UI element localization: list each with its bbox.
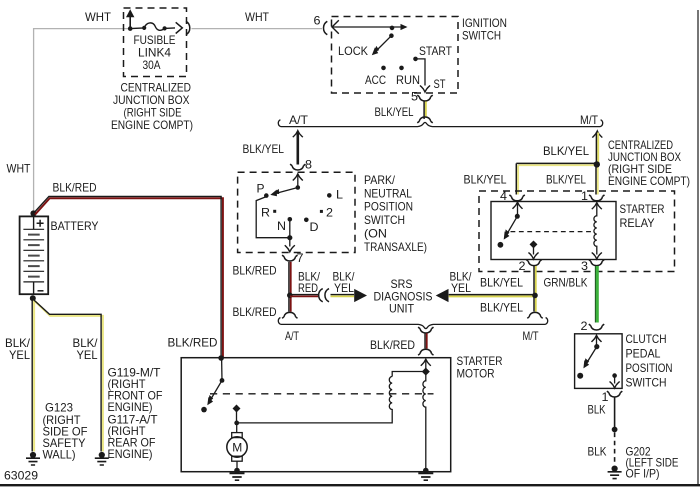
svg-text:WHT: WHT	[7, 162, 32, 176]
svg-text:GRN/BLK: GRN/BLK	[544, 275, 588, 289]
svg-text:SWITCH: SWITCH	[626, 375, 667, 389]
wire BLK/YEL junction branch to pin 4	[516, 163, 597, 194]
wire ST contact to pin 5	[416, 59, 426, 86]
wire BLK dashed to G202	[614, 433, 616, 463]
svg-text:POSITION: POSITION	[626, 361, 673, 375]
node solenoid ground at box edge	[423, 468, 429, 474]
svg-text:P: P	[257, 182, 265, 196]
connector at relay pin 2	[526, 260, 541, 266]
wire diamond contact to pin 2	[529, 247, 539, 259]
mechanical linkage dashed line	[210, 393, 434, 395]
connector BLK/YEL at lower bus M/T	[527, 312, 542, 318]
svg-text:WHT: WHT	[85, 10, 112, 24]
svg-text:2: 2	[519, 259, 526, 273]
contact 2	[320, 210, 323, 213]
label SRS DIAGNOSIS UNIT	[374, 277, 433, 316]
connector half at fusible link output	[186, 21, 190, 34]
svg-text:BLK/RED: BLK/RED	[168, 335, 218, 349]
svg-text:SWITCH: SWITCH	[364, 213, 405, 227]
node ignition feed	[390, 26, 395, 31]
node motor ground at box edge	[234, 468, 240, 474]
node BLK/YEL SRS junction	[532, 293, 538, 299]
ignition wiper blade toward LOCK	[369, 36, 391, 58]
svg-text:BLK/YEL: BLK/YEL	[243, 142, 285, 156]
svg-text:BLK/YEL: BLK/YEL	[543, 144, 589, 158]
svg-text:N: N	[277, 219, 286, 233]
svg-text:(ON: (ON	[364, 227, 387, 241]
ground G202	[608, 466, 622, 479]
svg-text:D: D	[310, 220, 319, 234]
node fusible link input	[128, 26, 133, 31]
svg-text:ST: ST	[434, 77, 447, 91]
relay contact blade	[501, 216, 518, 241]
svg-text:4: 4	[500, 189, 507, 203]
svg-text:CLUTCH: CLUTCH	[626, 332, 667, 346]
switch wiper blade toward P	[269, 188, 297, 198]
relay internal linkage dashed	[511, 231, 594, 233]
label BLK/ YEL stack left	[333, 270, 356, 296]
svg-text:UNIT: UNIT	[389, 301, 415, 315]
svg-text:STARTER: STARTER	[620, 202, 665, 216]
svg-text:30A: 30A	[143, 58, 161, 72]
hold-in winding coil	[423, 374, 426, 468]
svg-text:6: 6	[314, 13, 321, 27]
node solenoid coils junction diamond	[422, 368, 430, 376]
starter contact diamond	[233, 405, 241, 413]
connector at bus break top	[417, 117, 432, 123]
svg-text:PARK/: PARK/	[364, 173, 396, 187]
wire BLK/YEL SRS arrow to junction	[449, 295, 535, 297]
contact ST	[413, 57, 418, 62]
starter relay K1 box	[491, 202, 616, 260]
relay contact arm pin 4	[513, 202, 523, 216]
contact RUN	[399, 66, 404, 71]
arrow into SRS diagnosis unit right	[436, 289, 449, 302]
node BLK/YEL junction at CJB	[594, 161, 600, 167]
pin 8 entry arrow inside switch	[293, 174, 303, 188]
starter motor M1 box	[181, 358, 451, 472]
fusible link element	[142, 26, 146, 30]
label STARTER MOTOR	[457, 354, 503, 381]
node motor junction	[234, 421, 239, 426]
svg-text:ACC: ACC	[365, 73, 386, 87]
svg-text:START: START	[419, 44, 453, 58]
option bus A/T-M/T upper	[278, 120, 602, 127]
svg-text:BLK/RED: BLK/RED	[233, 305, 277, 319]
motor M symbol	[227, 433, 247, 469]
svg-text:WHT: WHT	[245, 10, 270, 24]
arrow into SRS diagnosis unit left	[354, 289, 367, 302]
label BLK/ RED stack	[298, 270, 321, 296]
label BLK/ YEL stack right	[450, 270, 473, 296]
starter solenoid entry arrow	[421, 359, 431, 370]
wire BLK/YEL pin 2 to M/T bus	[534, 266, 536, 312]
svg-text:RUN: RUN	[396, 73, 420, 87]
svg-text:YEL: YEL	[77, 348, 98, 362]
svg-text:SWITCH: SWITCH	[462, 28, 501, 42]
wire junction to pull-in winding	[392, 372, 426, 377]
svg-text:A/T: A/T	[285, 329, 299, 343]
contact ACC	[381, 66, 386, 71]
svg-text:BLK/RED: BLK/RED	[370, 338, 415, 352]
svg-text:BLK/YEL: BLK/YEL	[464, 172, 507, 186]
connector at pin 8	[290, 164, 305, 170]
wire contact to pin 1	[610, 377, 620, 388]
svg-text:YEL: YEL	[9, 348, 30, 362]
svg-text:5: 5	[411, 90, 418, 104]
svg-text:WALL): WALL)	[43, 447, 76, 461]
connector at pin 7	[282, 255, 297, 261]
battery plus sign	[37, 220, 44, 227]
svg-text:POSITION: POSITION	[364, 200, 413, 214]
relay coil pin 1 to pin 3	[592, 203, 602, 259]
svg-text:BLK/YEL: BLK/YEL	[375, 105, 414, 119]
svg-text:ENGINE COMPT): ENGINE COMPT)	[111, 118, 193, 132]
svg-text:A/T: A/T	[289, 113, 309, 127]
connector at relay pin 3	[589, 260, 604, 266]
svg-text:1: 1	[581, 189, 588, 203]
wire N contact to pin 7 junction	[289, 219, 291, 237]
battery terminal stems	[33, 216, 35, 294]
battery minus sign	[38, 290, 44, 292]
svg-text:YEL: YEL	[334, 281, 354, 295]
relay fixed contact dot	[498, 242, 504, 248]
connector at clutch switch pin 2	[589, 324, 604, 330]
battery BAT box	[20, 216, 49, 294]
wire WHT battery to fusible link	[34, 29, 130, 214]
svg-text:BLK/RED: BLK/RED	[233, 263, 277, 277]
svg-text:YEL: YEL	[451, 281, 471, 295]
node battery positive terminal	[30, 210, 36, 216]
clutch switch entry arrow	[592, 335, 602, 346]
wire BLK/YEL junction to pin 1	[596, 164, 598, 194]
option bus A/T-M/T lower	[278, 318, 547, 329]
wire BLK/YEL pin 5 to bus break	[424, 102, 426, 120]
ignition feed wire with arrows	[332, 20, 408, 34]
node battery negative terminal	[30, 295, 36, 301]
label PARK/ NEUTRAL POSITION SWITCH (ON TRANSAXLE)	[364, 173, 427, 254]
solenoid switch blade	[204, 380, 222, 406]
inline connector double arc	[319, 289, 329, 302]
connector half at ignition pin 6	[323, 21, 327, 34]
ground G123	[26, 452, 40, 465]
centralized junction box dashed outline right	[479, 191, 675, 272]
svg-text:ENGINE): ENGINE)	[108, 447, 153, 461]
wire BLK/YEL A/T drop to pin 8	[293, 131, 303, 165]
wire BLK/RED pin 7 drop	[289, 262, 291, 312]
label CENTRALIZED JUNCTION BOX (RIGHT SIDE ENGINE COMPT) right	[608, 138, 690, 188]
svg-text:63029: 63029	[4, 469, 38, 483]
pull-in winding coil	[237, 377, 393, 423]
fusible link output arrow	[176, 22, 183, 33]
svg-text:2: 2	[326, 206, 333, 220]
label G119-M/T (RIGHT FRONT OF ENGINE)	[108, 365, 163, 461]
wire BLK/YEL battery to G119/G117	[33, 299, 103, 452]
ground starter motor left	[230, 473, 245, 480]
svg-text:BATTERY: BATTERY	[51, 219, 99, 233]
connector at starter motor entry	[418, 349, 433, 355]
svg-text:PEDAL: PEDAL	[626, 346, 661, 360]
node BLK/RED junction	[287, 293, 293, 299]
wire diamond to motor junction	[236, 412, 238, 423]
svg-text:TRANSAXLE): TRANSAXLE)	[364, 240, 427, 254]
ignition switch S1 dashed box	[332, 17, 459, 94]
svg-text:3: 3	[581, 259, 588, 273]
svg-text:BLK/YEL: BLK/YEL	[546, 172, 586, 186]
wire junction to pin 7 exit	[285, 238, 295, 252]
wire BLK/YEL battery to G123	[32, 300, 34, 452]
wire BLK/YEL connector to SRS arrow	[331, 295, 355, 297]
park/neutral position switch S2 dashed box	[238, 172, 355, 252]
svg-text:NEUTRAL: NEUTRAL	[364, 186, 412, 200]
contact R	[273, 210, 276, 213]
contact N	[288, 217, 293, 222]
svg-text:BLK: BLK	[588, 444, 607, 458]
svg-text:M/T: M/T	[523, 329, 540, 343]
svg-text:8: 8	[305, 158, 312, 172]
node relay contact pivot	[515, 214, 520, 219]
label G202 (LEFT SIDE OF I/P)	[626, 444, 679, 480]
node BLK splice	[612, 427, 618, 433]
svg-text:BLK/YEL: BLK/YEL	[480, 300, 523, 314]
svg-text:RELAY: RELAY	[620, 216, 655, 230]
svg-text:RED: RED	[298, 281, 318, 295]
svg-text:M: M	[232, 441, 242, 455]
label BLK/ YEL right	[73, 336, 99, 362]
label CLUTCH PEDAL POSITION SWITCH	[626, 332, 673, 390]
svg-text:L: L	[336, 188, 343, 202]
label CENTRALIZED JUNCTION BOX (RIGHT SIDE ENGINE COMPT) left	[111, 80, 193, 132]
svg-text:7: 7	[297, 251, 304, 265]
ground G119/G117	[95, 452, 109, 465]
connector at relay pin 4	[509, 195, 524, 201]
node switch wiper pivot	[296, 185, 301, 190]
wire P contact to pin 7	[256, 197, 290, 238]
svg-text:MOTOR: MOTOR	[457, 367, 495, 381]
svg-text:2: 2	[581, 319, 588, 333]
clutch switch blade	[580, 347, 596, 370]
svg-text:BLK: BLK	[588, 402, 606, 416]
svg-text:OF I/P): OF I/P)	[626, 467, 660, 481]
page right border	[697, 10, 698, 485]
svg-text:LOCK: LOCK	[338, 44, 368, 58]
svg-text:R: R	[261, 206, 270, 220]
node solenoid switch pivot	[220, 378, 225, 383]
svg-text:ENGINE COMPT): ENGINE COMPT)	[608, 174, 690, 188]
svg-text:BLK/RED: BLK/RED	[53, 181, 97, 195]
contact P	[264, 193, 269, 198]
ground starter solenoid right	[418, 473, 433, 480]
label IGNITION SWITCH	[462, 16, 507, 43]
fusible link F1 dashed box	[124, 8, 187, 77]
wire junction to motor	[236, 423, 238, 433]
node clutch wiper pivot	[594, 344, 599, 349]
node pin 7 junction	[287, 235, 292, 240]
svg-text:M/T: M/T	[580, 113, 599, 127]
wire BLK clutch to splice	[614, 397, 616, 428]
solenoid switch fixed contact dot	[201, 407, 207, 413]
connector at ignition pin 5	[417, 95, 432, 101]
fusible link take-off arrow	[129, 16, 131, 27]
connector at clutch pin 1	[607, 391, 622, 397]
relay fixed contact diamond	[530, 240, 538, 248]
clutch blade contact dot	[577, 373, 583, 379]
connector BLK/RED at lower bus	[282, 312, 297, 318]
wire BLK/RED bus break to starter motor	[425, 333, 427, 348]
svg-text:BLK/YEL: BLK/YEL	[480, 275, 523, 289]
wire WHT fusible link to ignition switch	[192, 28, 323, 30]
clutch pedal position switch S3 box	[575, 334, 623, 389]
connector below lower bus break	[418, 327, 433, 333]
label BLK/ YEL left	[5, 336, 31, 362]
page bottom border	[0, 484, 700, 486]
contact D	[304, 218, 309, 223]
contact L	[327, 193, 332, 198]
connector at relay pin 1	[589, 195, 604, 201]
wire GRN/BLK pin 3 to clutch switch	[595, 266, 597, 323]
node starter solenoid switch top	[218, 355, 224, 361]
wire BLK/YEL M/T drop from upper bus	[592, 131, 602, 164]
node ignition wiper pivot	[389, 33, 394, 38]
wire BLK/RED battery to starter motor	[33, 196, 223, 357]
wire BLK/RED junction to SRS connector	[290, 295, 318, 297]
clutch fixed contact	[612, 373, 617, 378]
label STARTER RELAY	[620, 202, 665, 230]
wire to solenoid pivot	[221, 358, 223, 380]
label G123 (RIGHT SIDE OF SAFETY WALL)	[43, 400, 88, 461]
battery plates	[23, 229, 44, 282]
